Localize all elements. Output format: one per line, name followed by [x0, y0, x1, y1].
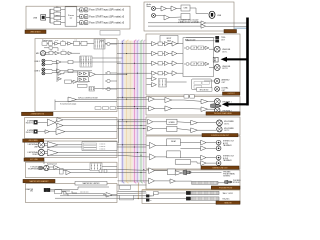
svg-text:x xxxx xx: x xxxx xx — [100, 146, 106, 148]
svg-text:TALLY / GPIO: TALLY / GPIO — [223, 192, 234, 195]
svg-text:Mixer: Mixer — [147, 6, 152, 8]
svg-text:CONTROL ROOM OUT: CONTROL ROOM OUT — [211, 135, 229, 137]
svg-text:HYBRID: HYBRID — [169, 122, 176, 124]
svg-text:LINE 2: LINE 2 — [35, 71, 41, 73]
svg-text:OUT R: OUT R — [222, 68, 228, 70]
svg-text:-18: -18 — [193, 64, 195, 66]
svg-text:4W HYBRID: 4W HYBRID — [29, 140, 39, 142]
svg-text:OUT L: OUT L — [222, 51, 227, 53]
svg-text:SRC 48 kHz: SRC 48 kHz — [200, 89, 209, 91]
svg-text:x xxxx xx: x xxxx xx — [100, 144, 106, 146]
svg-text:TALKBACK: TALKBACK — [223, 159, 233, 162]
svg-text:WEB START: WEB START — [30, 31, 41, 34]
svg-text:STEREO LINE OUT: STEREO LINE OUT — [212, 167, 227, 169]
svg-text:x x: x x — [56, 6, 58, 8]
svg-text:-18: -18 — [200, 64, 202, 66]
svg-text:x x: x x — [56, 11, 58, 13]
svg-text:sor: sor — [70, 16, 73, 19]
svg-text:USB: USB — [217, 15, 222, 17]
svg-text:STUDIO: STUDIO — [233, 182, 240, 184]
svg-text:TALKBACK: TALKBACK — [223, 144, 233, 147]
svg-text:PHONES FRONT: PHONES FRONT — [219, 187, 232, 189]
svg-text:LINE 1: LINE 1 — [35, 61, 41, 63]
svg-text:MASTER MIC HEADSET: MASTER MIC HEADSET — [29, 180, 48, 183]
svg-text:xx xx: xx xx — [55, 40, 58, 42]
svg-text:x xx: x xx — [75, 40, 78, 42]
svg-text:PHONES 1: PHONES 1 — [223, 101, 232, 103]
svg-text:Speaking level: Speaking level — [47, 163, 57, 165]
svg-text:MIC: MIC — [36, 53, 40, 55]
svg-text:TELEPHONE: TELEPHONE — [28, 169, 39, 171]
svg-text:x x: x x — [56, 15, 58, 17]
svg-text:OUT 1: OUT 1 — [224, 123, 229, 125]
svg-text:OUTPUT: OUTPUT — [228, 93, 235, 95]
svg-text:IN/OUT 2: IN/OUT 2 — [26, 132, 34, 134]
svg-text:INPUT: INPUT — [167, 38, 172, 40]
svg-text:EXT LINE: EXT LINE — [30, 159, 38, 161]
svg-text:-18: -18 — [193, 48, 195, 50]
svg-text:From START input (GPI make) x5: From START input (GPI make) x5 — [89, 22, 125, 25]
svg-text:RS-232C: RS-232C — [223, 199, 231, 201]
svg-text:RIGHT: RIGHT — [33, 154, 38, 156]
svg-text:xxxx xxx xxxx: xxxx xxx xxxx — [80, 191, 89, 193]
svg-text:x xxxx xx: x xxxx xx — [100, 149, 106, 151]
svg-text:PHONES REAR PANEL: PHONES REAR PANEL — [214, 112, 232, 115]
svg-text:OUT 2: OUT 2 — [224, 130, 229, 132]
svg-text:x x: x x — [56, 20, 58, 22]
svg-text:IN/OUT 1: IN/OUT 1 — [26, 123, 34, 125]
svg-text:-18: -18 — [200, 48, 202, 50]
svg-text:From START input (GPI make) x5: From START input (GPI make) x5 — [89, 9, 125, 12]
svg-text:4 WIRE INPUTS: 4 WIRE INPUTS — [31, 114, 45, 116]
svg-text:STEREO: STEREO — [223, 176, 231, 178]
svg-text:USB: USB — [33, 18, 38, 20]
svg-text:From START input (GPI make) x5: From START input (GPI make) x5 — [89, 15, 125, 18]
svg-text:REMOTE: REMOTE — [224, 202, 232, 204]
